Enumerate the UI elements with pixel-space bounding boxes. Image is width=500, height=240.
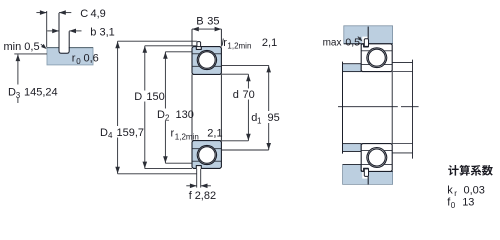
svg-text:70: 70 (243, 89, 255, 101)
bearing right face line through gap (391, 72, 393, 144)
ball upper (199, 52, 216, 69)
svg-text:4: 4 (108, 131, 113, 140)
dimension f 2,82 (196, 169, 198, 188)
svg-text:max: max (323, 37, 342, 48)
svg-text:0: 0 (76, 57, 81, 66)
dimension d1 95 (221, 64, 268, 66)
right snap ring upper (364, 39, 368, 47)
svg-text:r: r (72, 52, 76, 64)
svg-text:3,1: 3,1 (100, 26, 115, 38)
svg-text:145,24: 145,24 (24, 87, 58, 99)
dimension D4 159,7 (118, 40, 197, 42)
bearing section upper (outer+inner ring with ball pocket) (192, 47, 221, 75)
dimension D3 145,24 (14, 53, 47, 55)
label r1,2min 2,1 upper (222, 39, 223, 46)
right face gap lines upper (361, 50, 370, 52)
ring face gap lines upper (192, 53, 200, 55)
housing block lower with shoulder (343, 165, 393, 185)
svg-text:1,2min: 1,2min (227, 42, 251, 51)
side face extension line (46, 11, 48, 47)
middle bearing: side face extension lines (191, 29, 193, 46)
svg-text:35: 35 (207, 16, 219, 28)
right ball lower (368, 149, 385, 166)
svg-text:0,5: 0,5 (345, 36, 360, 48)
svg-text:150: 150 (146, 91, 164, 103)
svg-text:r: r (454, 189, 457, 198)
svg-text:2: 2 (165, 113, 170, 122)
dimension C 4,9 (36, 12, 46, 14)
svg-text:k: k (447, 184, 453, 196)
right ball upper (368, 49, 385, 66)
svg-text:min 0,5: min 0,5 (4, 41, 40, 53)
right face gap lines lower (361, 150, 370, 152)
dimension D 150 (145, 45, 197, 47)
right snap ring lower (364, 169, 368, 177)
ring face gap lines lower (192, 148, 200, 150)
svg-text:d: d (233, 89, 239, 101)
dimension d 70 (221, 73, 248, 75)
svg-text:0: 0 (451, 201, 456, 210)
svg-text:130: 130 (176, 109, 194, 121)
svg-text:D: D (8, 87, 16, 99)
svg-text:D: D (134, 91, 142, 103)
svg-text:D: D (157, 109, 165, 121)
shaft seat lines right of bearing (392, 71, 412, 73)
snap ring on outer ring (197, 42, 201, 47)
dimension b 3,1 (47, 30, 59, 32)
svg-text:2,1: 2,1 (207, 128, 222, 140)
snap ring groove slot (59, 45, 68, 53)
calculation factors table (448, 165, 493, 176)
ball lower (199, 147, 216, 164)
svg-text:2,82: 2,82 (195, 190, 216, 202)
svg-text:B: B (196, 16, 203, 28)
svg-text:D: D (100, 127, 108, 139)
right bearing section lower (361, 144, 392, 172)
right bearing section upper (361, 44, 392, 72)
svg-text:1,2min: 1,2min (175, 132, 199, 141)
shaft centerline (338, 106, 398, 108)
shaft with shoulders (343, 64, 362, 72)
svg-text:3: 3 (16, 91, 21, 100)
svg-text:13: 13 (462, 197, 474, 209)
svg-text:0,03: 0,03 (464, 184, 485, 196)
bearing section lower (with empty snap groove) (192, 141, 221, 169)
dimension D2 130 (165, 51, 192, 53)
svg-text:0,6: 0,6 (84, 52, 99, 64)
svg-text:C: C (80, 8, 88, 20)
shaft right end (392, 61, 412, 63)
svg-text:1: 1 (257, 117, 262, 126)
snap ring groove detail: outer ring segment (47, 48, 93, 65)
svg-text:2,1: 2,1 (262, 37, 277, 49)
svg-text:4,9: 4,9 (91, 8, 106, 20)
svg-text:b: b (90, 26, 96, 38)
svg-text:95: 95 (268, 112, 280, 124)
svg-text:159,7: 159,7 (117, 127, 145, 139)
dimension B 35 (192, 28, 221, 30)
housing block upper (344, 26, 393, 44)
